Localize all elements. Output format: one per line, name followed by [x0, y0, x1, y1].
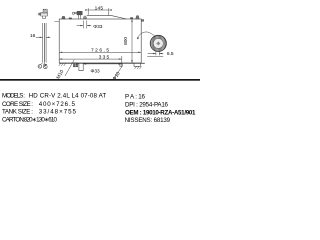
table text: [2, 93, 196, 124]
leader M10: [65, 60, 74, 76]
svg-text:Φ33: Φ33: [91, 68, 100, 74]
svg-text:OEM : 19010-RZA-A51/901: OEM : 19010-RZA-A51/901: [125, 110, 196, 117]
outlet pipe bottom (phi33): [78, 63, 83, 70]
inlet pipe block: [77, 11, 82, 15]
separator thick line: [0, 79, 200, 81]
svg-text:CORE SIZE :: CORE SIZE :: [2, 101, 33, 108]
svg-text:335: 335: [99, 55, 110, 61]
bracket wedge left of inlet: [69, 17, 73, 19]
raised top edge: [87, 16, 127, 19]
side view column: [43, 23, 46, 63]
svg-text:16: 16: [30, 33, 36, 39]
side view bottom hooks: [38, 65, 42, 69]
svg-text:HD CR-V 2.4L L4 07-08 AT: HD CR-V 2.4L L4 07-08 AT: [29, 93, 107, 100]
svg-text:DPI : 2954-PA16: DPI : 2954-PA16: [125, 102, 169, 109]
radiator cap top view (knurled circle): [150, 35, 166, 51]
radiator cap leader curve: [137, 32, 156, 39]
svg-text:P A : 16: P A : 16: [125, 94, 146, 101]
foot bracket bottom right: [134, 63, 141, 66]
ground hatch under left corner: [59, 63, 66, 66]
mounting pin left (hatched): [62, 16, 65, 19]
dimension 6.5: [147, 51, 163, 57]
svg-text:TANK SIZE :: TANK SIZE :: [2, 109, 33, 116]
phi10 fitting bottom: [120, 63, 122, 66]
leader phi10: [113, 66, 122, 80]
svg-text:33/48×755: 33/48×755: [39, 109, 77, 116]
dimension 335: [59, 56, 122, 66]
dimension 800 vertical: [131, 19, 133, 63]
inlet pipe top: [73, 12, 81, 19]
dimension line phi33 bottom: [75, 63, 122, 65]
bottom edge emphasis: [59, 62, 145, 64]
svg-text:CARTON:820∗130∗610: CARTON:820∗130∗610: [2, 116, 58, 123]
svg-text:145: 145: [95, 5, 104, 11]
filler stub: [83, 16, 87, 19]
side view top fitting: [39, 9, 48, 18]
tick left of corner: [54, 20, 59, 22]
svg-text:MODELS :: MODELS :: [2, 93, 25, 100]
svg-text:M10: M10: [55, 69, 65, 80]
svg-text:800: 800: [123, 37, 129, 45]
dimension 726.5: [59, 51, 141, 53]
radiator front view outline: [59, 19, 141, 63]
dimension phi33 (filler neck): [77, 21, 92, 29]
svg-text:6.5: 6.5: [167, 51, 174, 57]
svg-text:Φ33: Φ33: [93, 24, 102, 30]
hatched pin at 800 line top: [130, 17, 134, 19]
ground hatch under foot: [135, 66, 142, 69]
dimension 145: [88, 8, 109, 15]
drain bolt M10 bottom left: [73, 63, 77, 67]
svg-text:NISSENS: 68139: NISSENS: 68139: [125, 117, 171, 123]
svg-text:400×726.5: 400×726.5: [39, 101, 76, 108]
mounting pin right (hatched): [136, 16, 140, 19]
dimension 16 (thickness): [36, 36, 51, 38]
overflow nipple right of tank: [141, 20, 144, 22]
